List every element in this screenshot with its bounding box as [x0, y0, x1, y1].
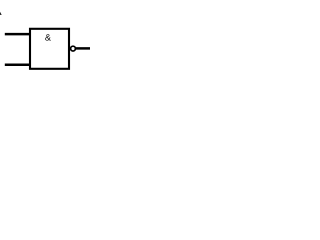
wire output: [76, 47, 90, 50]
NAND gate schematic (IEC symbol): [0, 0, 90, 90]
wire input B: [5, 63, 30, 66]
gate U1 body: [30, 29, 69, 69]
svg-text:&: &: [45, 33, 51, 43]
wire input A: [5, 33, 30, 36]
label fragment at left edge: [0, 12, 2, 15]
inversion bubble: [71, 46, 76, 51]
